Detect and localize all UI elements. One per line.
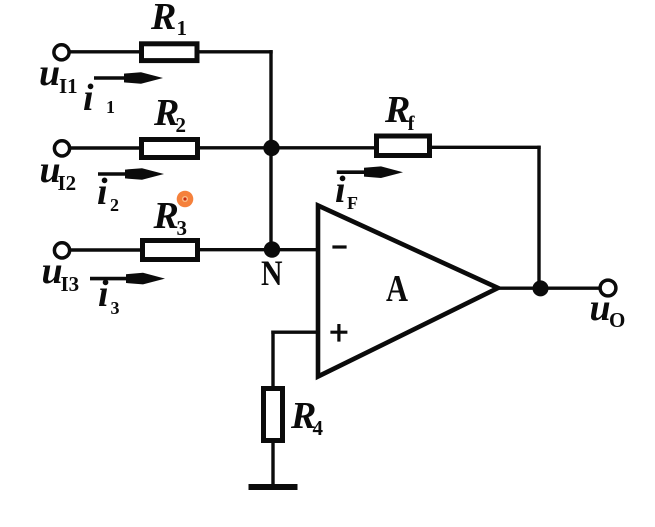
label i3 — [98, 273, 120, 318]
label u_O — [590, 287, 626, 332]
svg-text:1: 1 — [177, 16, 188, 40]
svg-text:R: R — [153, 195, 179, 237]
wire R2 to Rf through junction — [200, 146, 376, 149]
label u_I2 — [40, 149, 77, 195]
label i1 — [83, 77, 115, 119]
wire input3 to R3 — [70, 248, 142, 251]
svg-text:4: 4 — [313, 416, 324, 440]
svg-text:N: N — [261, 253, 283, 293]
svg-text:3: 3 — [111, 298, 120, 318]
resistor Rf — [377, 136, 430, 156]
wire R1 to corner — [200, 50, 272, 53]
svg-text:1: 1 — [106, 97, 115, 117]
svg-text:F: F — [347, 193, 358, 213]
resistor R3 — [143, 241, 198, 260]
node N junction — [264, 241, 280, 257]
terminal u_I1 — [54, 45, 69, 60]
svg-text:I1: I1 — [59, 74, 78, 98]
label R3 — [153, 195, 188, 240]
label Rf — [384, 89, 416, 135]
terminal u_O — [600, 280, 616, 296]
op-amp U1 triangle — [318, 206, 498, 377]
wire R3 to op-amp inverting input through node N — [200, 248, 318, 251]
wire op-amp output — [495, 287, 599, 290]
wire vertical noninverting to R4 — [271, 332, 274, 388]
node junction R2 row — [263, 140, 279, 156]
wire input2 to R2 — [70, 146, 141, 149]
resistor R4 — [264, 389, 283, 441]
svg-text:i: i — [335, 169, 346, 211]
arrow i1 — [94, 72, 163, 84]
svg-text:i: i — [98, 273, 109, 315]
arrow i2 — [98, 168, 164, 180]
svg-text:i: i — [83, 77, 94, 119]
terminal u_I2 — [54, 141, 69, 156]
wire input1 to R1 — [70, 50, 142, 53]
resistor R2 — [142, 140, 198, 158]
svg-text:O: O — [609, 308, 625, 332]
label iF — [335, 169, 358, 213]
svg-text:2: 2 — [176, 113, 187, 137]
svg-text:i: i — [97, 171, 108, 213]
annotation orange dot — [177, 191, 194, 208]
svg-text:2: 2 — [110, 195, 119, 215]
svg-text:R: R — [150, 0, 176, 38]
op-amp minus sign — [334, 245, 345, 248]
svg-text:f: f — [408, 111, 416, 135]
arrow iF — [337, 166, 403, 178]
node output junction — [533, 280, 549, 296]
label R1 — [150, 0, 187, 40]
label R4 — [290, 395, 324, 440]
svg-text:u: u — [590, 287, 611, 329]
wire vertical corner R1 down to R2 junction — [269, 52, 272, 148]
arrow i3 — [90, 273, 165, 285]
svg-text:I2: I2 — [58, 171, 77, 195]
wire vertical feedback down to output node — [537, 147, 540, 288]
svg-text:A: A — [386, 268, 408, 310]
svg-text:u: u — [39, 52, 60, 94]
label R2 — [153, 92, 186, 137]
svg-text:R: R — [384, 89, 410, 131]
wire R4 to ground — [271, 441, 274, 484]
svg-text:u: u — [42, 250, 63, 292]
svg-text:3: 3 — [177, 216, 188, 240]
label u_I3 — [42, 250, 80, 296]
ground — [252, 484, 295, 490]
op-amp plus sign — [332, 326, 346, 340]
terminal u_I3 — [54, 243, 69, 258]
resistor R1 — [142, 44, 198, 61]
wire Rf to right corner — [430, 146, 539, 149]
wire noninverting input — [273, 331, 318, 334]
wire vertical junction down to node N — [269, 148, 272, 250]
label u_I1 — [39, 52, 78, 98]
svg-text:I3: I3 — [61, 272, 80, 296]
label i2 — [97, 171, 119, 215]
